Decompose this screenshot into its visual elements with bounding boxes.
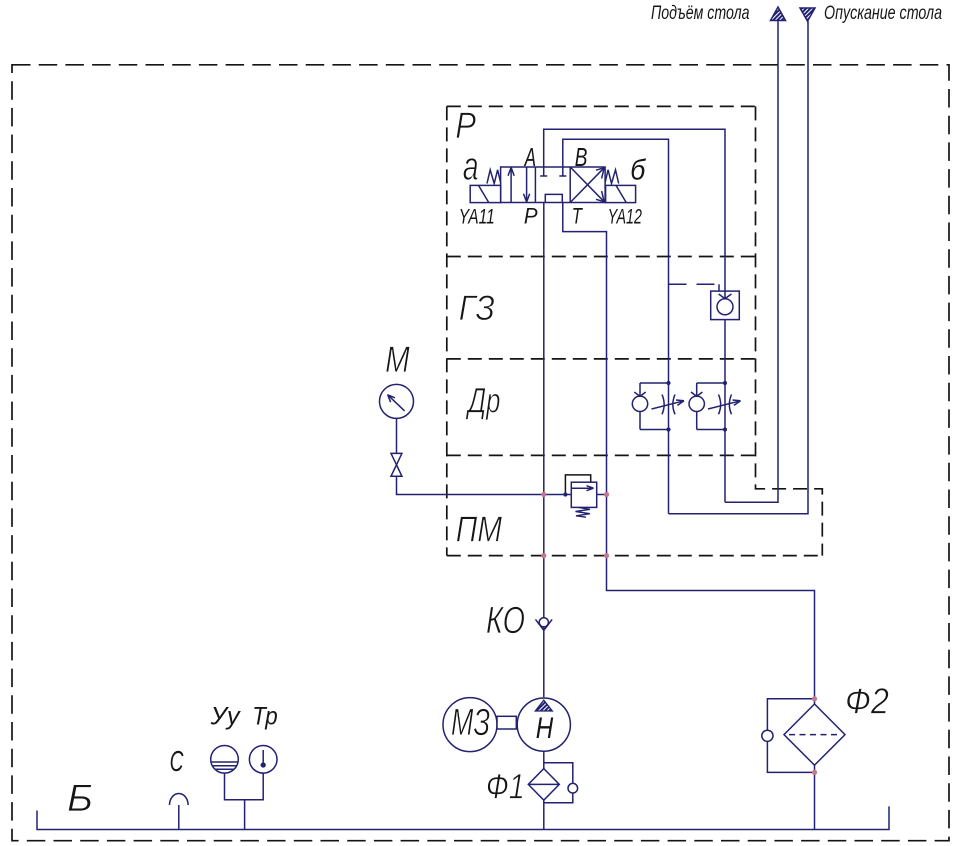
svg-text:B: B [575,142,588,172]
svg-text:Тр: Тр [252,703,277,730]
svg-text:С: С [170,746,184,778]
svg-text:Подъём стола: Подъём стола [651,2,749,24]
svg-text:ГЗ: ГЗ [459,290,495,329]
svg-text:Р: Р [524,204,538,229]
svg-text:Уу: Уу [210,703,241,731]
svg-text:A: A [523,142,536,172]
svg-text:Т: Т [572,204,584,229]
svg-text:YA12: YA12 [608,205,642,228]
svg-text:МЗ: МЗ [451,700,490,743]
svg-text:б: б [630,154,646,186]
svg-text:Р: Р [455,105,476,146]
svg-text:Н: Н [536,712,554,745]
svg-text:Ф1: Ф1 [486,767,525,806]
svg-text:Опускание стола: Опускание стола [824,2,942,23]
svg-text:КО: КО [486,599,525,642]
svg-text:ПМ: ПМ [456,509,503,549]
svg-text:YA11: YA11 [459,204,495,228]
svg-text:Б: Б [67,778,93,820]
svg-text:а: а [463,145,479,189]
svg-text:Др: Др [465,381,500,421]
svg-text:М: М [385,340,410,381]
svg-text:Ф2: Ф2 [845,682,889,722]
